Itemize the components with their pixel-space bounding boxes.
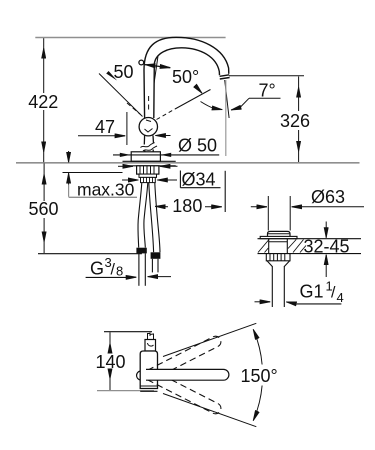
svg-text:/: / [331, 285, 336, 302]
ball joint [139, 118, 157, 136]
top reference line [35, 37, 225, 39]
dimension 560 [43, 163, 45, 253]
svg-text:G: G [90, 259, 104, 279]
svg-text:47: 47 [95, 117, 115, 137]
drain body through deck [268, 239, 270, 254]
svg-text:50: 50 [114, 62, 134, 82]
boundary lines [163, 323, 256, 356]
dimension arrows O34 [122, 179, 139, 181]
dimension 180 [155, 205, 168, 207]
outlet vertical extension (grey) [225, 80, 227, 156]
svg-text:422: 422 [28, 92, 58, 112]
bottom reference line (hose end) [38, 253, 142, 255]
svg-text:150°: 150° [241, 366, 278, 386]
svg-text:7°: 7° [259, 81, 276, 101]
dimension 326 [298, 77, 300, 163]
locknut [266, 254, 290, 261]
break squiggle [141, 143, 155, 148]
svg-text:Ø63: Ø63 [311, 187, 345, 207]
svg-text:140: 140 [96, 352, 126, 372]
svg-text:/: / [111, 262, 116, 279]
svg-text:8: 8 [116, 264, 123, 279]
riser centerline dashes [148, 96, 150, 112]
nut [137, 166, 159, 174]
outlet tilted line [225, 80, 229, 118]
flange [123, 160, 176, 162]
right connector [151, 252, 161, 258]
dimension O63 [251, 206, 267, 208]
radial dashes up-left [127, 103, 141, 115]
svg-text:50°: 50° [172, 67, 199, 87]
svg-text:Ø34: Ø34 [182, 169, 216, 189]
dashed spout down [148, 370, 223, 415]
150 deg arc [253, 329, 262, 364]
svg-text:G1: G1 [300, 282, 324, 302]
label O50 [113, 154, 219, 156]
svg-text:4: 4 [337, 290, 344, 305]
handle [145, 340, 156, 352]
threaded shank [141, 177, 156, 182]
svg-text:max.30: max.30 [77, 180, 135, 200]
svg-text:326: 326 [280, 111, 310, 131]
body [140, 351, 157, 389]
left bump [137, 371, 141, 380]
spout height line [229, 75, 304, 77]
dimension 140 [109, 332, 111, 390]
svg-text:32-45: 32-45 [304, 236, 350, 256]
tilted riser line (7 deg) [154, 56, 158, 84]
dimension 422 [43, 38, 45, 162]
leader of first 50deg [99, 74, 143, 117]
swing arc near outlet [201, 102, 214, 109]
faucet spout tube + riser [144, 37, 230, 118]
radial line up-right from ball [157, 109, 176, 120]
svg-text:560: 560 [28, 199, 58, 219]
supply hoses [138, 183, 160, 253]
dimension max.30 [68, 151, 70, 185]
drain cap [268, 231, 291, 236]
deck line [16, 162, 360, 164]
solid spout (top view) [146, 369, 229, 380]
svg-text:180: 180 [172, 196, 202, 216]
left connector [136, 248, 146, 254]
deck band [258, 238, 362, 240]
escutcheon [131, 152, 160, 162]
step [139, 174, 157, 177]
extension lines [104, 331, 152, 333]
deck underside line [63, 172, 123, 174]
tailpipe [271, 266, 273, 307]
svg-text:Ø 50: Ø 50 [178, 136, 217, 156]
extension lines [267, 196, 269, 231]
handle top mark [148, 333, 154, 340]
dashed spout up [148, 334, 223, 379]
